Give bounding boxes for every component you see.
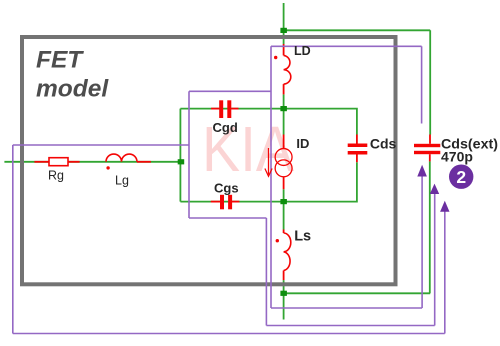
purple annotation wires bbox=[13, 46, 445, 333]
arrowhead purple 2 bbox=[430, 184, 439, 194]
node junction source inner bbox=[280, 199, 287, 204]
svg-text:Rg: Rg bbox=[48, 169, 64, 183]
inductor LD bbox=[284, 55, 291, 84]
wire lead Lg right bbox=[137, 161, 151, 163]
wire lead LD top bbox=[283, 44, 285, 55]
wire purple bottom inner y308 bbox=[271, 307, 422, 309]
wire lead ID top bbox=[283, 135, 285, 149]
svg-text:2: 2 bbox=[456, 167, 466, 187]
wire purple mid vertical x266.4 bbox=[265, 218, 267, 326]
wire lead Rg left bbox=[34, 161, 49, 163]
wire purple left vertical x12.8 bbox=[12, 145, 14, 334]
node junction source bottom bbox=[280, 291, 287, 296]
svg-text:model: model bbox=[36, 76, 109, 103]
wire Cds(ext) top vertical x430.2 bbox=[429, 30, 431, 134]
node junction drain top bbox=[280, 28, 287, 33]
FET model box frame bbox=[22, 37, 396, 284]
wire gate input y161.8 bbox=[4, 161, 180, 163]
red wire leads bbox=[34, 44, 430, 280]
wire purple vertical x271 bbox=[270, 46, 272, 308]
wire Cgd horizontal y108.6 bbox=[180, 108, 283, 110]
capacitor Cgs plates bbox=[220, 195, 232, 210]
capacitor Cds plates bbox=[348, 144, 368, 155]
inductor Ls bbox=[284, 233, 291, 271]
wire purple bottom outer y333.5 bbox=[13, 333, 445, 335]
wire lead Cds(ext) bottom bbox=[429, 154, 431, 161]
wire Cds bottom branch bbox=[284, 162, 357, 201]
wire lead Cgd right bbox=[231, 108, 238, 110]
wire lead Rg right bbox=[68, 161, 80, 163]
wire purple box bottom y218 bbox=[189, 217, 266, 219]
resistor Rg bbox=[49, 158, 68, 166]
wire purple top y46.3 bbox=[271, 45, 422, 47]
node junction gate bbox=[178, 159, 185, 164]
wire Cds top branch bbox=[284, 109, 357, 135]
pin dot Lg bbox=[106, 166, 109, 169]
wire lead Cgs left bbox=[211, 201, 220, 203]
wire ID bottom to source node bbox=[283, 189, 285, 229]
wire gate left rail x180.4 bbox=[179, 109, 181, 202]
arrowhead purple 1 bbox=[417, 165, 427, 177]
arrow ID current direction bbox=[268, 148, 270, 175]
wire purple box left x189 bbox=[188, 91, 190, 218]
svg-text:LD: LD bbox=[294, 44, 311, 58]
wire source stub below bbox=[283, 293, 285, 319]
svg-text:Lg: Lg bbox=[115, 174, 129, 188]
wire purple bottom mid y325.5 bbox=[266, 325, 434, 327]
svg-text:Cgd: Cgd bbox=[213, 120, 238, 135]
wire Cgs horizontal y201.6 bbox=[180, 201, 283, 203]
wire lead LD bottom bbox=[283, 84, 285, 94]
badge circle 2 bbox=[449, 165, 473, 189]
wire lead Cds top bbox=[356, 135, 358, 144]
svg-text:Cgs: Cgs bbox=[214, 180, 239, 195]
current source ID symbol bbox=[275, 149, 292, 177]
wire purple box top y91.3 bbox=[189, 90, 271, 92]
svg-text:ID: ID bbox=[296, 136, 309, 151]
svg-text:Cds: Cds bbox=[370, 136, 397, 152]
wire lead Cgs right bbox=[232, 201, 240, 203]
wire lead Cds bottom bbox=[356, 155, 358, 163]
svg-text:Ls: Ls bbox=[294, 229, 311, 245]
wire purple stub x421.6 bbox=[421, 46, 423, 123]
pin dot Ls bbox=[276, 239, 279, 242]
wire purple left horizontal y145 bbox=[13, 144, 189, 146]
green wires bbox=[4, 3, 430, 320]
wire lead Cgd left bbox=[211, 108, 219, 110]
wire purple arrow stem x422.1 bbox=[421, 171, 423, 308]
wire lead Ls top bbox=[283, 230, 285, 234]
wire LD to drain node bbox=[283, 94, 285, 134]
capacitor Cds(ext) plates bbox=[414, 144, 440, 154]
pin dot LD bbox=[274, 56, 277, 59]
wire purple right mid vertical x434.7 bbox=[434, 189, 436, 326]
wire drain top horizontal y30.3 bbox=[284, 29, 431, 31]
svg-text:FET: FET bbox=[36, 47, 84, 74]
wire source bottom horizontal y293.3 bbox=[284, 292, 431, 294]
node junction drain bbox=[280, 106, 287, 111]
wire lead Cds(ext) top bbox=[429, 135, 431, 144]
wire Cds(ext) bottom vertical x430.2 bbox=[429, 161, 431, 293]
svg-text:470p: 470p bbox=[441, 149, 473, 165]
wire purple right outer vertical x444.8 bbox=[444, 207, 446, 334]
inductor Lg bbox=[106, 154, 137, 162]
wire lead ID bottom bbox=[283, 177, 285, 189]
wire drain top vertical bbox=[283, 3, 285, 44]
capacitor Cgd plates bbox=[219, 100, 231, 118]
wire lead Ls bottom bbox=[283, 271, 285, 281]
wire Ls bottom bbox=[283, 280, 285, 293]
arrowhead purple 3 bbox=[440, 201, 449, 212]
